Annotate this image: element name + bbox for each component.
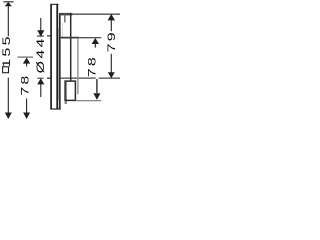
lower box outline xyxy=(65,81,75,100)
dimension 78 left: upper stub xyxy=(26,62,28,67)
dimension 78 left: lower line segment xyxy=(26,99,28,114)
dimension 78 right: top stub xyxy=(94,43,96,48)
top extent line y14 to right edge xyxy=(72,13,120,15)
dimension diameter 44: bottom arrow pointing up xyxy=(37,78,44,84)
valve body: top band xyxy=(59,13,72,16)
trim plate side view: back line xyxy=(56,4,58,110)
trim plate side view: top cap xyxy=(50,4,58,5)
svg-text:155: 155 xyxy=(0,34,12,68)
long extent line y78 to right edge (gap at 78R dim line) xyxy=(61,77,96,79)
slight grey between plate back and wall line xyxy=(57,28,60,100)
valve body: very faint hidden edge xyxy=(61,23,64,37)
faint vertical line x78 xyxy=(77,38,79,94)
valve body: right vertical line xyxy=(70,13,72,81)
svg-text:78: 78 xyxy=(19,73,31,95)
knob bottom edge / long reference line at y78 (left part) xyxy=(47,77,52,79)
knob top edge xyxy=(47,35,52,37)
dimension 78 left: bottom arrow xyxy=(23,113,30,120)
lower box: inner grey vertical xyxy=(66,82,67,104)
svg-text:Ø44: Ø44 xyxy=(34,36,46,73)
trim plate side view: bottom cap xyxy=(50,108,60,109)
valve body: faint inner stub top xyxy=(64,14,65,23)
dimension 155: upper line segment xyxy=(7,6,9,36)
dimension diameter 44: bottom extent tick xyxy=(37,77,43,79)
dimension 155: square symbol of label xyxy=(3,67,9,73)
dimension 155: top arrow xyxy=(5,2,12,6)
dimension diameter 44: top arrow pointing down xyxy=(37,30,44,37)
dimension 78 left: top extent line xyxy=(18,56,34,58)
svg-text:79: 79 xyxy=(105,30,117,52)
dimension 79: lower line segment xyxy=(110,54,112,73)
dimension 79: bottom arrow pointing down xyxy=(108,72,115,78)
dimension 155 square: top tick xyxy=(3,1,13,3)
dimension 155: lower line segment xyxy=(7,78,9,113)
dimension diameter 44: top stub xyxy=(40,18,42,31)
lower box: grey stub below bottom xyxy=(65,101,67,104)
svg-text:78: 78 xyxy=(86,55,98,77)
dimension 78 right: bottom arrow pointing down xyxy=(93,93,100,100)
dimension 78 right: lower stub xyxy=(96,79,98,93)
dimension 78 left: top arrow xyxy=(23,58,30,64)
dimension 79: upper line segment xyxy=(110,20,112,32)
dimension diameter 44: bottom stub xyxy=(40,84,42,97)
dimension 155: bottom arrow xyxy=(5,113,12,120)
lower box bottom edge extension to right xyxy=(76,100,101,102)
extent line y37.5 left thick part xyxy=(61,37,80,39)
dimension 78 right: top arrow pointing up xyxy=(92,38,99,44)
dimension diameter 44: top extent tick xyxy=(37,35,44,37)
trim plate side view: front face line xyxy=(50,4,52,110)
wall line xyxy=(59,13,61,110)
dimension 79: top arrow pointing up xyxy=(108,14,115,21)
extent line y37.5 right part xyxy=(79,37,101,39)
